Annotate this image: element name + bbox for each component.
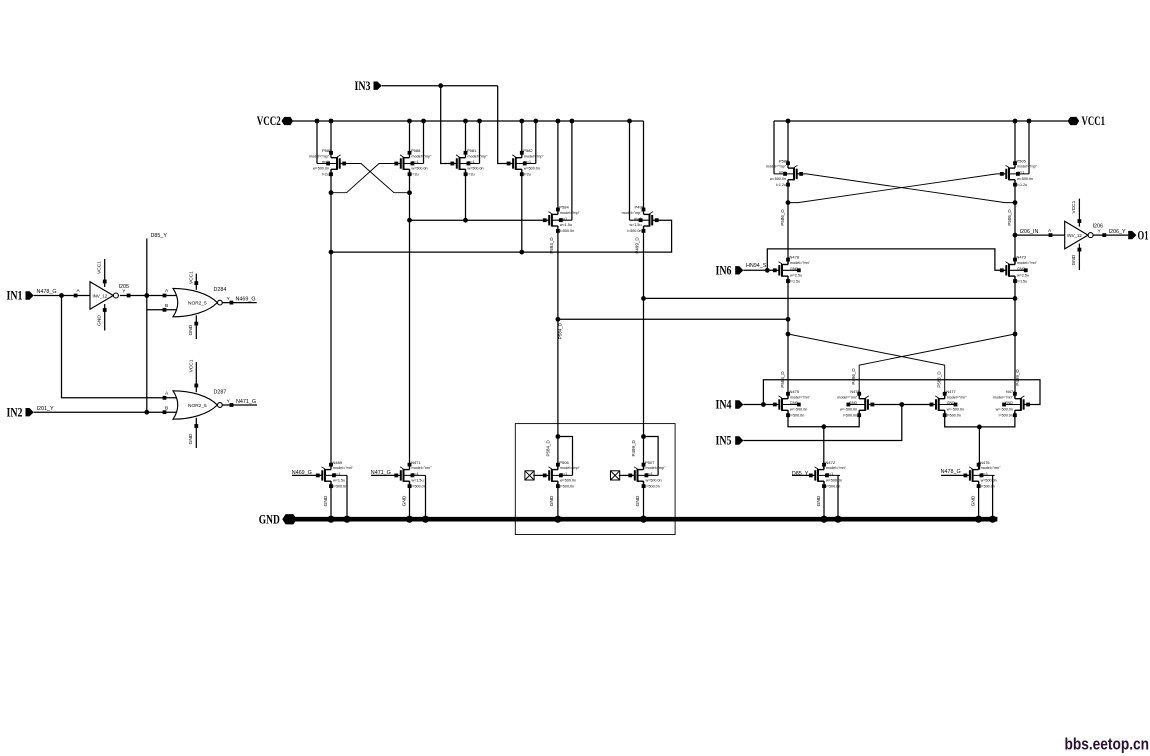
svg-text:GND: GND [401,495,407,506]
svg-text:GND: GND [549,495,555,506]
pmos P588 [394,148,432,177]
nmos N476 [837,389,874,418]
wire N476 bulk to rail [992,475,994,519]
svg-text:IN4: IN4 [716,398,733,412]
svg-text:N478_G: N478_G [941,469,961,475]
wire P588 drain down to N471 [409,169,411,465]
wire VCC1 rail [774,120,1068,122]
wire IN2 to NOR D287 input B [34,411,180,413]
junction IN4 branch [761,402,766,407]
wire N473 source down to N474 [1014,276,1016,399]
svg-text:m=1: m=1 [646,472,653,476]
net label P499_D in box [631,440,636,457]
net label P499_D upper [635,237,640,254]
svg-text:model="mn": model="mn" [333,466,354,470]
wire net P584_D to N478 source [558,318,788,320]
wire P584 drain down to box [557,226,559,470]
svg-text:w=500.0n: w=500.0n [981,478,997,482]
svg-text:w=500.0n: w=500.0n [1017,177,1033,181]
svg-text:m=1: m=1 [981,472,988,476]
net label D85_Y at N472 gate [792,471,810,477]
svg-text:P499_D: P499_D [635,237,640,254]
svg-text:model="mp": model="mp" [560,211,581,215]
svg-text:model="mn": model="mn" [790,395,811,399]
svg-text:w=2.5u: w=2.5u [1017,273,1029,277]
svg-text:l=1.2u: l=1.2u [776,183,786,187]
svg-text:w=1.5u: w=1.5u [412,478,424,482]
svg-text:N473: N473 [1017,255,1027,260]
wire P582 source to rail [521,121,523,153]
junction P585 drain node [329,190,334,195]
wire P505 bulk to rail [1028,121,1030,174]
wire left pair tail [788,410,859,426]
svg-text:P584: P584 [559,205,569,210]
wire P581 drain down [465,169,467,220]
terminal IN4 [716,398,744,412]
label I205 [119,284,130,290]
svg-text:D284: D284 [214,287,227,293]
svg-text:w=500.0n: w=500.0n [646,478,662,482]
nmos N474 [993,389,1030,418]
svg-text:w=2.5u: w=2.5u [790,273,802,277]
wire NOR D287 output Y net N471_G [222,399,257,407]
svg-text:VCC1: VCC1 [96,261,102,274]
ground label N472 [816,495,822,506]
wire latch cross-couple diagonal right [859,334,1015,399]
net label P584_D upper [549,237,554,254]
terminal IN5 [716,434,744,448]
svg-text:l=500.0n: l=500.0n [790,414,804,418]
nmos N473 [1000,255,1038,284]
svg-text:GND: GND [323,495,329,506]
svg-text:w=-500.0n: w=-500.0n [790,408,807,412]
svg-text:VCC2: VCC2 [257,114,281,128]
junction P588 drain to gate wire [407,218,468,223]
wire P499 drain down to box [643,226,645,470]
wire P582 drain down [521,169,523,252]
watermark bbs.eetop.cn [1065,736,1150,754]
svg-text:GND: GND [947,401,956,405]
wire right pair tail [945,410,1015,427]
wire latch cross-couple diagonal left [788,334,945,399]
junction IN5 joins gate wire [899,402,904,407]
wire net P499_D to N473 source [644,297,1016,299]
junction IN1 branch [59,293,64,298]
terminal IN1 [7,289,34,303]
net label I206_IN [1020,229,1039,235]
junction P584 drain tap [556,317,561,322]
nmos N476 sink [964,460,1002,489]
no-connect symbol at P507 gate [611,471,629,480]
junction P585 drain at cross net [329,250,525,255]
svg-text:GND: GND [96,315,102,326]
svg-text:m=1: m=1 [634,217,641,221]
svg-text:l=500.0n: l=500.0n [560,484,574,488]
wire P584 bulk to rail [571,121,573,220]
svg-text:model="mp": model="mp" [560,466,581,470]
svg-text:m=1: m=1 [1017,171,1024,175]
ground label N471 [401,495,407,506]
wire N489 bulk to rail [346,475,348,519]
svg-text:w=500.0n: w=500.0n [770,177,786,181]
svg-text:P499_D: P499_D [631,440,636,457]
junction VCC1 rail dots [786,119,1032,124]
terminal VCC1 [1068,114,1105,128]
wire IN1 down to NOR D287 input A [62,296,181,398]
wire N471 bulk to rail [425,475,427,519]
svg-text:I206_IN: I206_IN [1020,229,1039,235]
svg-text:P505: P505 [1017,158,1027,163]
svg-text:bbs.eetop.cn: bbs.eetop.cn [1065,736,1150,754]
svg-text:VCC1: VCC1 [1082,114,1106,128]
nmos N477 [930,389,968,418]
op-amp I206 inverter INV_12 [1065,199,1093,271]
net label N478_G at N476 gate [941,469,964,475]
net label P586_D [780,209,785,226]
no-connect symbol at P506 gate [525,471,543,480]
svg-text:GND: GND [259,513,280,527]
pmos P582 [507,148,545,177]
svg-text:N477: N477 [946,389,956,394]
wire to inverter I206 input [1015,228,1065,237]
svg-text:N489: N489 [333,460,343,465]
net label I206_Y [1109,229,1126,235]
svg-text:P582: P582 [523,148,533,153]
svg-text:N476: N476 [980,460,990,465]
net label D85_Y [151,233,168,239]
wire node D85_Y vertical [146,239,148,413]
wire P507 source to ground rail [643,481,645,519]
svg-text:l=2u: l=2u [524,173,531,177]
svg-text:I206_Y: I206_Y [1109,229,1126,235]
net label I201_Y [37,406,54,412]
svg-text:IN1: IN1 [7,289,23,303]
pmos P584 [543,205,581,234]
wire N472 source to rail [823,481,825,519]
junction on IN2 line [144,410,149,415]
svg-text:N471_G: N471_G [236,399,256,405]
wire N476 source to rail [978,481,980,519]
svg-text:GND: GND [188,324,194,335]
wire P586 bulk from rail corner [773,121,775,174]
svg-text:l=2u: l=2u [468,173,475,177]
svg-text:l=1.5u: l=1.5u [1017,279,1027,283]
svg-text:m=1: m=1 [412,472,419,476]
svg-text:INV_12: INV_12 [93,293,108,298]
pmos P586 [766,158,803,187]
svg-text:NOR2_5: NOR2_5 [188,301,207,307]
wire N472 bulk to rail [837,475,839,519]
wire N489 source to rail [330,481,332,519]
svg-text:N474: N474 [1006,389,1016,394]
svg-text:model="mp": model="mp" [646,466,667,470]
terminal IN2 [7,405,34,419]
wire P507 bulk loop [644,437,659,476]
wire IN5 up to gates [743,405,901,441]
svg-text:P584_D: P584_D [545,440,550,457]
svg-text:GND: GND [1071,254,1077,265]
svg-text:l=1.5u: l=1.5u [790,279,800,283]
op-amp I205 inverter INV_12 [90,259,118,331]
wire IN3 to P582 gate [498,86,508,164]
wire P506 bulk loop [558,437,573,476]
junction right tail [977,425,982,430]
boundary box around dummy devices [515,424,675,535]
wire P588 bulk to rail [423,121,425,164]
wire N471 source to rail [409,481,411,519]
ground label P507 [635,495,641,506]
svg-text:m=1: m=1 [333,472,340,476]
svg-text:w=500.0n: w=500.0n [524,167,540,171]
nor gate D284 NOR2_5 [173,271,222,339]
svg-text:N478: N478 [790,255,800,260]
wire P581 source to rail [465,121,467,153]
wire IN4 over to N474 gate [763,380,1040,405]
svg-text:P586_D: P586_D [780,209,785,226]
wire P586 gate cross-couple diagonal [803,174,1015,203]
label D284 [214,287,227,293]
svg-text:l=500.0n: l=500.0n [947,414,961,418]
svg-text:GND: GND [635,495,641,506]
terminal VCC2 [257,114,293,128]
pmos P507 dummy [628,460,666,489]
svg-text:m=1: m=1 [560,217,567,221]
ground label P506 [549,495,555,506]
wire IN6 to N478 gate [743,269,773,271]
svg-text:P506: P506 [559,460,569,465]
svg-text:P586: P586 [779,158,789,163]
svg-text:model="mp": model="mp" [309,154,330,158]
nor gate D287 NOR2_5 [173,359,222,448]
svg-text:model="mp": model="mp" [468,154,489,158]
pin squares NOR D287 inputs [163,391,169,415]
net label N478_G [37,289,57,295]
svg-text:w=1.5u: w=1.5u [560,223,572,227]
svg-text:GND: GND [790,267,799,271]
wire N478 source down to N475 [787,276,789,399]
wire P505 source to rail [1014,121,1016,163]
junction P586 drain node [786,200,791,205]
junction inverter output node [144,293,149,298]
wire inverter Y to NOR D284 input A [120,289,180,298]
svg-text:m=1: m=1 [412,160,419,164]
net label P584_D at N475 drain [780,371,785,388]
wire IN1 to inverter A [34,288,90,297]
svg-text:m=1: m=1 [524,160,531,164]
svg-text:w=500.0n: w=500.0n [313,167,329,171]
svg-text:m=1: m=1 [826,472,833,476]
svg-text:l=500.0n: l=500.0n [627,229,641,233]
svg-text:model="mn": model="mn" [837,395,858,399]
svg-text:l=500.0n: l=500.0n [333,484,347,488]
net label P584_D in box [545,440,550,457]
pmos P506 dummy [543,460,581,489]
svg-text:N475: N475 [790,389,800,394]
wire P582 bulk to rail [535,121,537,164]
wire P506 source to ground rail [557,481,559,519]
svg-text:model="mp": model="mp" [766,165,787,169]
terminal O1 [1128,228,1148,242]
svg-text:IN5: IN5 [716,434,732,448]
svg-text:P507: P507 [645,460,655,465]
svg-text:w=500.0n: w=500.0n [560,478,576,482]
svg-text:model="mp": model="mp" [524,154,545,158]
svg-text:GND: GND [1005,401,1014,405]
wire P505 gate cross-couple diagonal [788,174,1000,203]
svg-text:w=-500.0n: w=-500.0n [947,408,964,412]
svg-text:P584_D: P584_D [549,237,554,254]
wire IN3 to P581 gate [441,86,451,164]
nmos N472 [809,460,847,489]
svg-text:l=1.2u: l=1.2u [1017,183,1027,187]
svg-text:VCC1: VCC1 [189,359,195,372]
svg-text:GND: GND [188,433,194,444]
junction N473 source taps [1013,296,1018,336]
terminal GND [259,513,297,527]
wire N476 gate to N477 gate [874,404,930,406]
ground bus wire [294,517,997,522]
svg-text:P499_D: P499_D [1015,369,1020,386]
svg-text:N471: N471 [411,460,421,465]
wire P588 source to rail [409,121,411,153]
wire NOR D284 output Y net N469_G [222,296,256,304]
pmos P585 [309,148,346,177]
wire left tail down to N472 [823,427,825,470]
svg-text:model="mn": model="mn" [790,261,811,265]
svg-text:P588: P588 [411,148,421,153]
label I206 [1093,224,1104,230]
junction P505 drain node [1013,200,1018,205]
wire VCC2 rail [293,120,644,122]
wire net P588_D to P584 gate [410,219,543,221]
svg-text:model="mn": model="mn" [826,466,847,470]
junction IN3 branch [438,83,443,88]
svg-text:m=1: m=1 [779,171,786,175]
svg-text:GND: GND [971,495,977,506]
svg-text:IN2: IN2 [7,405,23,419]
junction left tail [821,424,826,429]
junction ground rail dots [327,516,996,523]
svg-text:B: B [165,405,168,411]
nmos N475 [773,389,811,418]
net label P584_D mid [558,322,563,339]
pmos P499 [622,205,659,234]
wire branch to NOR D284 input B [147,309,180,311]
nmos N478 [773,255,811,284]
junction P507 drain-bulk tie [641,434,646,439]
svg-text:l=2u: l=2u [412,173,419,177]
label D287 [214,389,227,395]
svg-text:IN6: IN6 [716,263,732,277]
svg-text:l=2u: l=2u [322,173,329,177]
svg-text:model="mp": model="mp" [412,154,433,158]
pmos P581 [450,148,488,177]
wire P584 source to rail [557,121,559,209]
junction VCC2 rail dots [315,119,632,124]
wire P588 gate cross-couple diagonal [331,164,395,193]
svg-text:INV_12: INV_12 [1067,233,1082,238]
wire IN3 horizontal [382,85,498,87]
wire P585 gate cross-couple diagonal [346,164,410,193]
junction P499 drain tap [641,296,646,301]
terminal IN3 [355,79,382,93]
svg-text:w=500.0n: w=500.0n [412,167,428,171]
svg-text:N478_G: N478_G [37,289,57,295]
ground label N476 sink [971,495,977,506]
svg-text:I201_Y: I201_Y [37,406,54,412]
svg-text:w=1.5u: w=1.5u [333,478,345,482]
svg-text:l=500.0n: l=500.0n [999,414,1013,418]
wire P585 bulk to rail [316,121,318,164]
ground label N489 [323,495,329,506]
svg-text:w=-500.0n: w=-500.0n [996,408,1013,412]
svg-text:model="mn": model="mn" [993,395,1014,399]
svg-text:w=500.0n: w=500.0n [826,478,842,482]
svg-text:B: B [165,303,168,309]
svg-text:P505_D: P505_D [1007,209,1012,226]
wire right tail down to N476 sink [978,427,980,470]
net label N471_G at N471 gate [371,470,395,476]
svg-text:model="mn": model="mn" [947,395,968,399]
svg-text:l=500.0n: l=500.0n [560,229,574,233]
junction I206 input tap [1013,233,1018,238]
svg-text:N476: N476 [850,389,860,394]
svg-text:model="mp": model="mp" [622,211,643,215]
svg-text:N469_G: N469_G [236,296,256,302]
wire IN4 to N475 gate [743,404,773,406]
nmos N489 [316,460,354,489]
svg-text:P581: P581 [467,148,477,153]
svg-text:GND: GND [849,401,858,405]
svg-text:D287: D287 [214,389,227,395]
wire P499 gate to net P585_D [331,220,672,252]
junction IN6 branch [765,268,770,273]
wire P586 drain down to N478 [787,180,789,265]
wire inverter Y to O1 [1093,228,1128,237]
wire P499 source to rail [643,121,645,209]
junction P588 drain node [407,190,412,195]
svg-text:l=500.0n: l=500.0n [412,484,426,488]
svg-text:N472: N472 [826,460,836,465]
svg-text:m=1: m=1 [322,160,329,164]
svg-text:O1: O1 [1138,228,1149,242]
wire P585 source to rail [330,121,332,153]
svg-text:w=-500.0n: w=-500.0n [840,408,857,412]
svg-text:VCC1: VCC1 [189,271,195,284]
svg-text:VCC1: VCC1 [1071,200,1077,213]
svg-text:IN3: IN3 [355,79,371,93]
nmos N471 [394,460,432,489]
svg-text:D85_Y: D85_Y [151,233,168,239]
svg-text:P584_D: P584_D [558,322,563,339]
junction P506 drain-bulk tie [556,434,561,439]
net label HN94_S [746,263,767,269]
svg-text:model="mn": model="mn" [981,466,1002,470]
svg-text:HN94_S: HN94_S [746,263,767,269]
svg-text:model="mn": model="mn" [412,466,433,470]
wire P586 source to rail [787,121,789,163]
svg-text:GND: GND [1017,267,1026,271]
svg-text:m=1: m=1 [560,472,567,476]
pin squares NOR D284 inputs [163,288,169,311]
svg-text:model="mp": model="mp" [1017,165,1038,169]
svg-text:m=1: m=1 [468,160,475,164]
svg-text:w=500.0n: w=500.0n [468,167,484,171]
junction N478 source taps [786,317,791,337]
svg-text:w=1.5u: w=1.5u [630,223,642,227]
svg-text:P496_D: P496_D [851,368,856,385]
svg-text:model="mn": model="mn" [1017,261,1038,265]
